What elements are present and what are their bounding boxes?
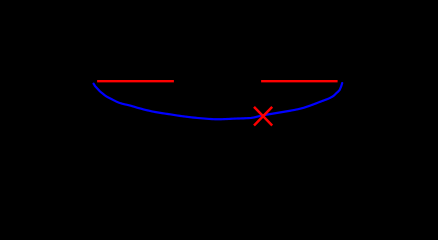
- blue hanging chain curve: [94, 83, 343, 119]
- wire: left red horizontal segment: [97, 80, 174, 82]
- wire: right red horizontal segment: [261, 80, 338, 82]
- red X marker: [254, 107, 272, 126]
